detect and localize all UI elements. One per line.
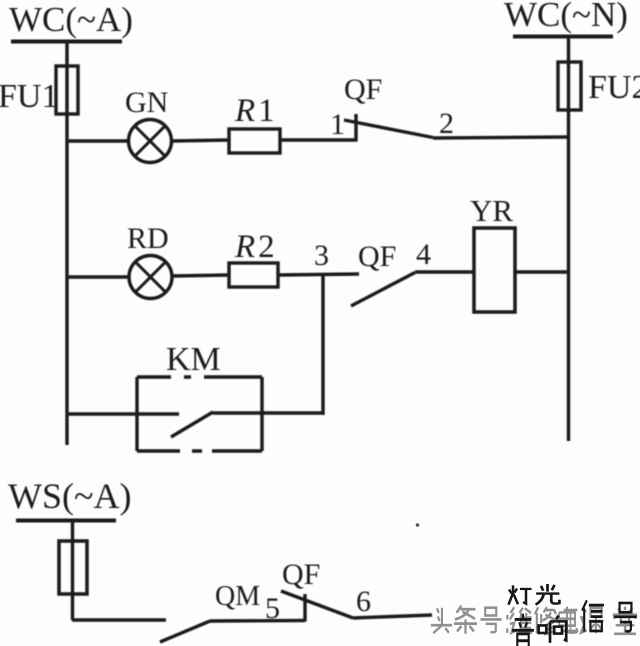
breaker contact QF 3-4 [351, 273, 415, 307]
条 [454, 606, 477, 634]
KM dash-dot box [135, 377, 138, 451]
svg-text:FU2: FU2 [588, 69, 640, 106]
svg-text:YR: YR [470, 193, 513, 228]
svg-text:FU1: FU1 [0, 78, 58, 115]
号 [614, 603, 637, 631]
svg-text:1: 1 [330, 108, 345, 141]
svg-text:2: 2 [439, 107, 454, 140]
colon [503, 615, 512, 633]
wire KM branch right [213, 411, 325, 414]
breaker contact QF 5-6 [303, 594, 306, 622]
lamp RD [129, 256, 172, 299]
svg-text:QF: QF [282, 558, 320, 591]
svg-text:4: 4 [416, 238, 431, 271]
svg-text:5: 5 [265, 592, 280, 625]
svg-text:WC(~N): WC(~N) [504, 0, 628, 34]
wire [67, 275, 129, 278]
光 [536, 584, 560, 605]
音 [512, 614, 534, 646]
响 [539, 616, 567, 643]
wire [415, 270, 474, 273]
wire [210, 619, 305, 623]
svg-text:QF: QF [344, 73, 382, 106]
svg-text:WS(~A): WS(~A) [8, 476, 131, 516]
wire [172, 275, 229, 276]
wire [280, 138, 356, 141]
label 灯光 (hand-drawn) [509, 584, 560, 605]
contactor contact KM blade [171, 412, 213, 437]
svg-text:GN: GN [125, 86, 168, 119]
wire [278, 274, 359, 275]
resistor R1 [229, 129, 280, 153]
svg-text:WC(~A): WC(~A) [9, 0, 133, 39]
wire [515, 270, 569, 273]
svg-text:RD: RD [127, 222, 169, 255]
wire [172, 140, 230, 141]
维 [510, 607, 532, 633]
wire left vertical bus drop [65, 41, 68, 445]
svg-text:QF: QF [358, 240, 396, 273]
灯 [509, 585, 532, 604]
wire right vertical bus drop [567, 36, 570, 441]
label 音响 (hand-drawn) [512, 614, 566, 646]
fuse FU (WS) [59, 541, 87, 594]
wire [433, 137, 569, 138]
lamp GN [129, 120, 172, 163]
bus WC(~A) [11, 40, 122, 44]
fuse FU2 [558, 62, 581, 110]
bus WC(~N) [513, 35, 613, 39]
resistor R2 [229, 263, 278, 287]
wire KM branch left [67, 412, 179, 415]
bus WS(~A) [16, 519, 116, 523]
relay coil YR [474, 228, 515, 312]
svg-text:3: 3 [314, 239, 329, 272]
电 [559, 607, 577, 633]
label 信号 (hand-drawn) [582, 600, 637, 631]
wire vertical node3 to KM branch [321, 274, 324, 415]
svg-text:6: 6 [356, 585, 371, 618]
wire [67, 139, 128, 142]
wire [71, 520, 74, 620]
svg-text:R1: R1 [234, 93, 278, 129]
修 [535, 607, 556, 634]
fuse FU1 [56, 66, 78, 114]
wire [72, 618, 166, 621]
svg-text:KM: KM [166, 341, 221, 378]
breaker contact QF 1-2 [354, 114, 357, 142]
头 [431, 608, 452, 634]
号 [480, 608, 501, 633]
speck [416, 523, 420, 527]
watermark 头条号:维修电工课堂 (gray, hand-drawn) [431, 606, 637, 635]
svg-text:R2: R2 [234, 229, 278, 265]
堂 [613, 607, 637, 634]
工 [563, 610, 579, 631]
wire [353, 615, 432, 618]
课 [581, 608, 604, 634]
svg-text:QM: QM [215, 581, 260, 612]
信 [582, 600, 604, 631]
switch QM blade [160, 621, 210, 642]
